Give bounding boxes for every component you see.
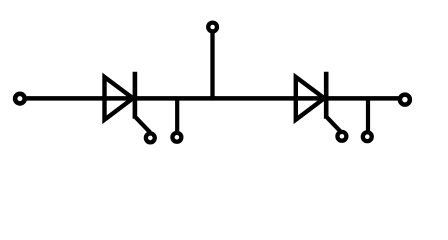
terminal D2 aux: [363, 132, 372, 141]
terminal top (AC): [208, 23, 217, 32]
wire D1 aux drop: [175, 98, 179, 132]
terminal D2 aux cathode: [337, 132, 346, 141]
terminal left (main): [15, 94, 25, 104]
terminal D1 aux: [172, 133, 181, 142]
terminal right (main): [400, 95, 410, 105]
diode D2 cathode bar: [324, 72, 329, 119]
wire main horizontal bus: [20, 96, 405, 101]
terminal D1 aux cathode: [146, 133, 155, 142]
diode D2 triangle: [296, 77, 325, 120]
wire D1 cathode aux diagonal: [136, 118, 150, 133]
wire D2 cathode aux diagonal: [327, 118, 341, 133]
diode D1 cathode bar: [133, 72, 138, 119]
wire center vertical to top terminal: [210, 29, 214, 100]
wire D2 aux drop: [366, 98, 370, 131]
diode D1 triangle: [105, 77, 134, 120]
